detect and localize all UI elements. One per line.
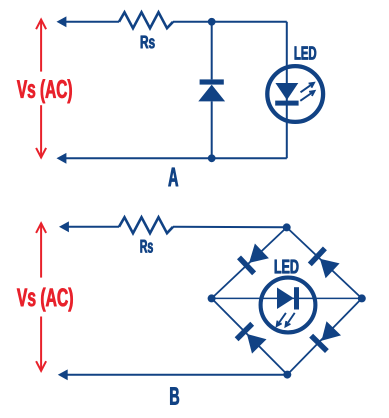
LED U1 diode symbol, circuit A: [275, 83, 298, 106]
node junction top, circuit A: [208, 18, 216, 26]
wire top right segment, circuit B: [173, 226, 287, 228]
resistor Rs, circuit B: [119, 217, 173, 233]
wire top, circuit A (left arrowhead): [57, 16, 67, 27]
wire diamond side bottom-right: [287, 298, 362, 374]
label Vs (AC), circuit B: [17, 288, 73, 312]
label Vs (AC), circuit A: [17, 79, 72, 103]
diode D5 (bottom-right), circuit B: [309, 321, 341, 353]
LED U2 diode symbol, circuit B: [277, 287, 299, 309]
LED U1 light arrows, circuit A: [300, 83, 314, 101]
diode D4 (bottom-left), circuit B: [235, 322, 267, 354]
wire top, circuit B (left arrowhead): [59, 221, 69, 232]
wire bottom, circuit A (left arrowhead): [57, 153, 67, 164]
node bottom vertex, circuit B: [283, 371, 291, 379]
source Vs(AC) double arrow, circuit A: [36, 19, 46, 158]
LED U2 light arrows, circuit B: [277, 313, 295, 327]
node right vertex, circuit B: [358, 294, 366, 302]
wire top left segment, circuit B: [68, 226, 119, 228]
bridge diamond wires, circuit B: [212, 227, 362, 374]
LED U1 circle, circuit A: [267, 66, 323, 122]
wire middle horizontal (LED branch), circuit B: [212, 297, 362, 299]
LED U2 circle, circuit B: [261, 278, 316, 333]
node top vertex, circuit B: [283, 223, 291, 231]
label Rs, circuit A: [141, 36, 155, 49]
wire diamond side bottom-left: [212, 298, 288, 374]
node junction bottom, circuit A: [208, 154, 216, 162]
wire diamond side top-left: [212, 227, 287, 298]
wire top right segment, circuit A: [173, 21, 287, 23]
wire diamond side top-right: [287, 227, 362, 298]
label LED, circuit B: [275, 260, 299, 274]
diode D3 (top-right), circuit B: [308, 247, 340, 279]
wire top left segment, circuit A: [66, 21, 120, 23]
wire bottom segment, circuit A: [66, 157, 287, 159]
diode D2 (top-left), circuit B: [237, 244, 269, 276]
wire diode branch, circuit A: [211, 22, 213, 159]
wire LED branch, circuit A: [286, 22, 288, 159]
label LED, circuit A: [295, 47, 316, 60]
wire bottom segment, circuit B: [67, 374, 287, 376]
node left vertex, circuit B: [208, 294, 216, 302]
source Vs(AC) double arrow, circuit B: [36, 223, 46, 371]
label Rs, circuit B: [141, 240, 153, 253]
wire bottom, circuit B (left arrowhead): [58, 369, 68, 380]
resistor Rs, circuit A: [119, 12, 173, 28]
label B: [170, 387, 179, 404]
diode D1, circuit A: [198, 79, 225, 101]
label A: [168, 168, 178, 187]
